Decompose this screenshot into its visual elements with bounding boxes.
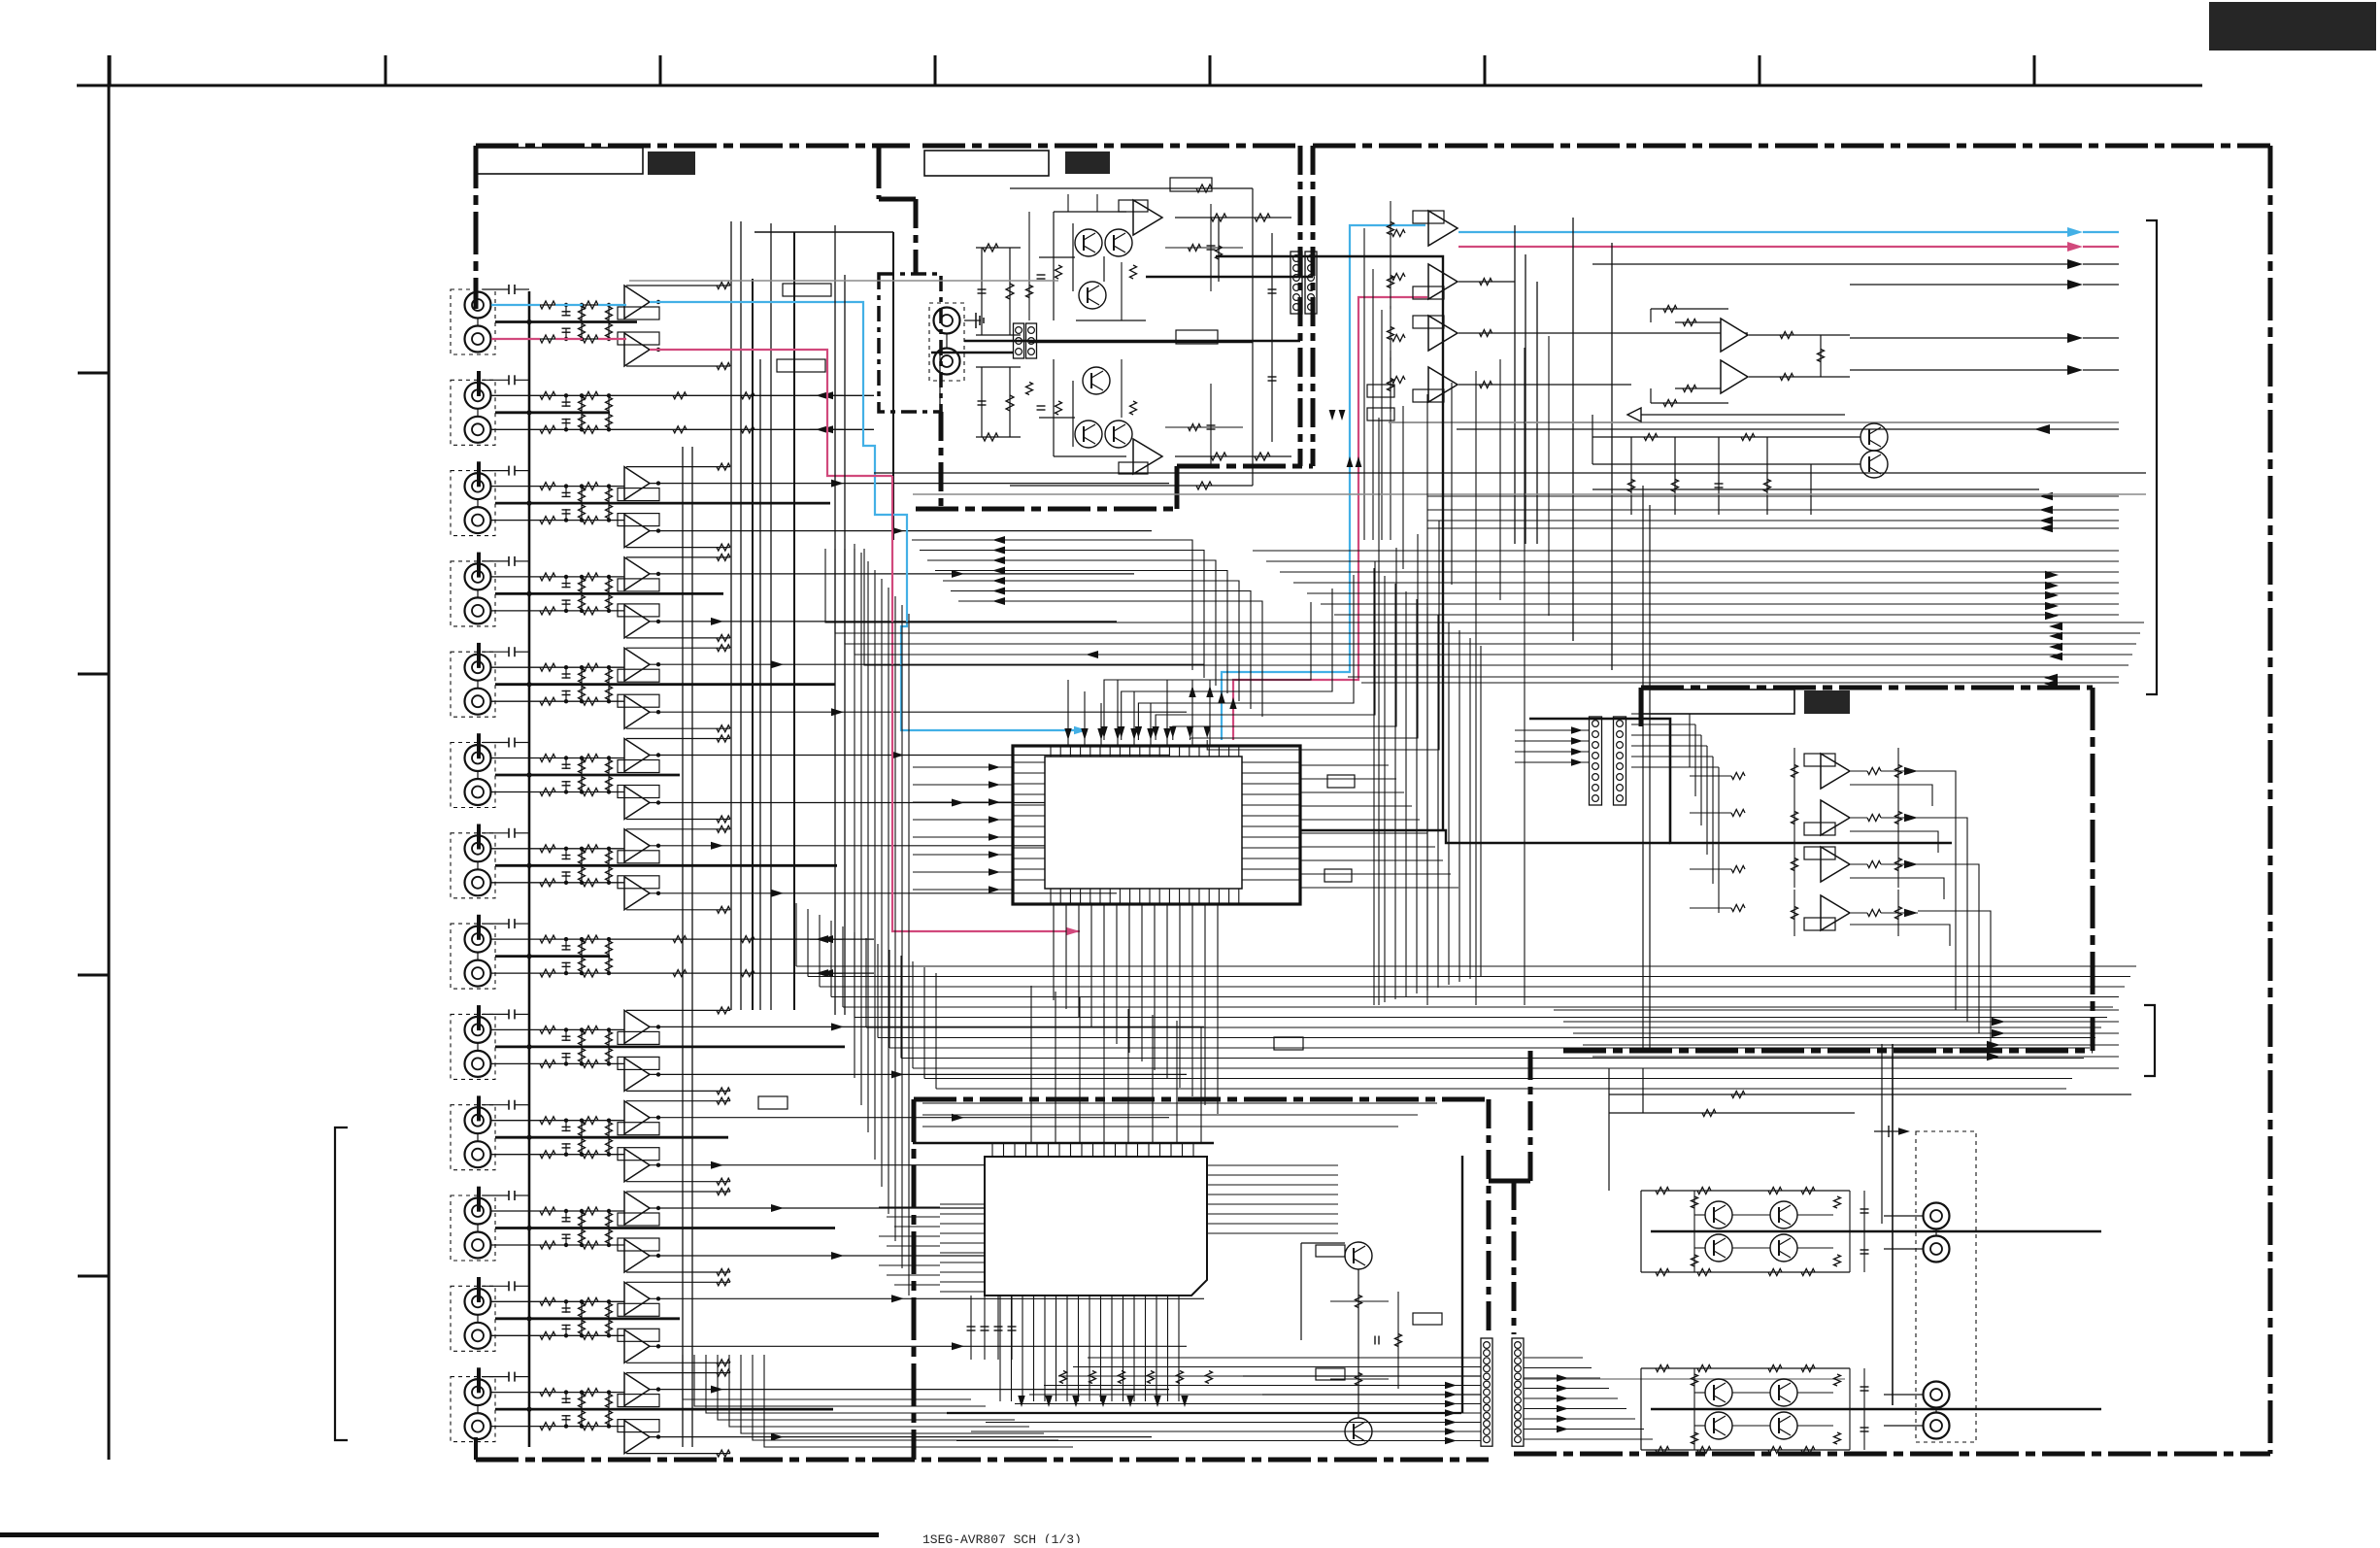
wire arrows out of bottom strips right — [1524, 1357, 1583, 1359]
resistor R17b — [583, 1026, 598, 1033]
op-amp U5B — [624, 695, 650, 728]
resistor R22c vertical — [581, 1228, 583, 1246]
op-amp U43 feedback — [1804, 918, 1835, 930]
resistor R7d vertical — [608, 577, 610, 594]
resistor R24d vertical — [608, 1319, 610, 1336]
board border bottom right — [1514, 1452, 2270, 1457]
RCA jack J3A — [465, 473, 491, 499]
resistor R18b — [583, 1060, 598, 1067]
board ref label box right-center block — [1804, 690, 1850, 714]
RCA jack J1B — [465, 326, 491, 353]
ground heavy link pair 12 — [495, 1317, 680, 1320]
wire input channel 22 — [491, 1244, 627, 1246]
page frame left tick marks — [78, 372, 109, 375]
wire speaker feeds — [1884, 1215, 1923, 1217]
wire link J13 — [477, 1405, 479, 1413]
board border right-center block top — [1641, 686, 2093, 690]
op-amp U12 feedback loop — [1413, 316, 1444, 328]
IC U60 body — [985, 1157, 1207, 1296]
ground heavy link pair 2 — [495, 411, 610, 414]
wire link J5 — [477, 681, 479, 689]
op-amp U11B feedback wire — [626, 1271, 730, 1273]
resistor R25b — [583, 1389, 598, 1397]
resistor vert U11 — [1390, 254, 1391, 309]
dual op-amp wiring — [1675, 321, 1721, 323]
heavy wire right-center — [1529, 719, 1952, 843]
resistor R24c vertical — [581, 1319, 583, 1336]
wire verticals between ICs — [1030, 986, 1032, 1143]
wire vertical mixes top-right — [1514, 225, 1516, 544]
resistor R8a — [540, 607, 555, 615]
connector dashed box J7 — [451, 833, 495, 898]
op-amp U1A feedback loop — [618, 307, 659, 320]
thick analog ground bus vertical — [528, 291, 531, 1447]
wire gray feedback left op-amp1 — [629, 280, 1058, 282]
op-amp U1B — [624, 333, 650, 366]
wire input channel 24 — [491, 1334, 627, 1336]
op-amp U10B feedback loop — [618, 1148, 659, 1161]
ground heavy link pair 1 — [495, 320, 637, 323]
wire band1 groupB continuous rows — [825, 549, 2144, 623]
wire op-amp output row y1244 — [650, 1207, 1134, 1209]
resistor R21c vertical — [581, 1211, 583, 1228]
op-amp U6A — [624, 739, 650, 772]
resistor R7c vertical — [581, 577, 583, 594]
connector dashed box J13 — [451, 1377, 495, 1442]
RCA jack J7A — [465, 835, 491, 861]
connector strip bottom left — [1481, 1338, 1492, 1446]
wire left arrows rows 511-544 — [1427, 495, 2119, 497]
wire band1 groupC rows into IC top — [1104, 602, 1311, 740]
power cluster mid heavy — [1651, 1408, 2101, 1410]
resistor R24a — [540, 1331, 555, 1339]
speaker jack dashed box — [1916, 1131, 1976, 1442]
wire rows above bottom-center block — [922, 1102, 1437, 1104]
resistor R13a — [540, 845, 555, 853]
RCA jack J3B — [465, 507, 491, 533]
op-amp U11A feedback wire — [626, 1191, 730, 1193]
power transistor QA — [1705, 1379, 1732, 1406]
cap C9a top marks — [483, 1013, 509, 1015]
resistor R2d vertical — [608, 322, 610, 340]
page frame top rule — [77, 84, 2202, 87]
wire long vertical pair center — [834, 225, 836, 1015]
resistor R6a — [540, 517, 555, 524]
op-amp U9B feedback wire — [626, 1090, 730, 1092]
resistor U43 in — [1731, 905, 1745, 912]
wire gray row 435 — [1389, 421, 2119, 423]
resistor R21d vertical — [608, 1211, 610, 1228]
op-amp U6B feedback loop — [618, 786, 659, 798]
capacitor C19 — [565, 1121, 567, 1132]
op-amp U11A feedback loop — [618, 1213, 659, 1226]
resistor R5b — [583, 483, 598, 490]
power transistor QD — [1770, 1412, 1797, 1439]
wire input channel 3 — [491, 394, 627, 396]
resistor R14c vertical — [581, 865, 583, 883]
wire blue left channel from RCA — [491, 304, 540, 306]
op-amp U6A feedback loop — [618, 760, 659, 773]
wire pink vertical descent — [892, 476, 1080, 931]
RCA jack J7B — [465, 869, 491, 895]
RCA jack J12B — [465, 1323, 491, 1349]
small label box bc2 — [1316, 1368, 1345, 1380]
resistor R4d vertical — [608, 413, 610, 430]
op-amp U12 top-right — [1428, 316, 1458, 351]
connector dashed box J1 — [451, 289, 495, 354]
resistor R3c vertical — [581, 395, 583, 413]
wire output row 381 — [1850, 369, 2073, 371]
RCA jack J10B — [465, 1141, 491, 1167]
phones jack ring — [934, 349, 960, 375]
board border right-center block bottom — [1563, 1049, 2093, 1054]
resistor R14d vertical — [608, 865, 610, 883]
resistor R9d vertical — [608, 667, 610, 685]
page number box top-right — [2209, 2, 2376, 50]
resistor R21b — [583, 1207, 598, 1215]
wire link J10 — [477, 1133, 479, 1141]
resistor U41 in — [1731, 810, 1745, 817]
connector 3pin pair headphone — [1014, 323, 1024, 358]
wire pink right channel from RCA — [650, 350, 892, 476]
resistor R6d vertical — [608, 503, 610, 521]
power cluster wires — [1640, 1191, 1642, 1272]
wire staircase bundle bottom-left — [683, 1355, 971, 1399]
small label box row2 — [777, 359, 825, 372]
power cluster mid heavy — [1651, 1230, 2101, 1232]
op-amp U1B feedback loop — [618, 332, 659, 345]
board ref label box headphone block — [1065, 151, 1110, 174]
heavy wire connector down — [1216, 256, 1443, 830]
RCA jack J8B — [465, 960, 491, 987]
wire link J2 — [477, 409, 479, 417]
wire link J1 — [477, 319, 479, 326]
connector dashed box J6 — [451, 743, 495, 808]
connector dashed box J2 — [451, 380, 495, 445]
wire bus vertical pair B — [730, 221, 732, 1010]
power cluster caps — [1863, 1191, 1865, 1272]
wire IC U30 right fan — [1300, 764, 1389, 766]
resistor U43 out — [1867, 910, 1881, 917]
power cluster wires — [1640, 1368, 1642, 1450]
wire input channel 9 — [491, 666, 627, 668]
resistor R8c vertical — [581, 593, 583, 611]
resistor R5c vertical — [581, 487, 583, 503]
resistor R25d vertical — [608, 1393, 610, 1410]
arrow marks center verticals — [1329, 410, 1336, 421]
capacitor C18 — [565, 1053, 567, 1064]
cap C3a top marks — [483, 470, 509, 472]
op-amp U7A — [624, 829, 650, 862]
resistor R22d vertical — [608, 1228, 610, 1246]
resistor R23a — [540, 1297, 555, 1305]
transistor Q10 top-right — [1860, 423, 1888, 451]
RCA jack J5B — [465, 689, 491, 715]
cap C5a top marks — [483, 651, 509, 653]
capacitor C22 — [565, 1234, 567, 1246]
wire dense output group right — [1253, 550, 2119, 552]
IC U60 top pins — [991, 1143, 993, 1157]
board name box input block — [477, 148, 643, 174]
capacitor C15 — [565, 939, 567, 951]
RCA jack J9A — [465, 1017, 491, 1043]
op-amp U11 top-right — [1428, 264, 1458, 299]
wire gray row y509 — [913, 493, 2146, 495]
wire long vertical right block — [1892, 1044, 1894, 1405]
IC U60 left pins — [940, 1203, 985, 1205]
wire band1 right risers — [1378, 418, 1380, 1005]
cap C12a top marks — [483, 1285, 509, 1287]
op-amp U12B feedback loop — [618, 1329, 659, 1341]
resistor R3b — [583, 391, 598, 399]
RCA jack J11A — [465, 1198, 491, 1225]
headphone top rail wire — [1010, 187, 1253, 189]
op-amp U4A feedback loop — [618, 579, 659, 591]
op-amp U4A feedback wire — [626, 556, 730, 558]
wire bus vertical bundle center-left — [854, 544, 855, 1078]
wire op-amp output row y1106 — [650, 1073, 1187, 1075]
wire right-center feed lines — [1631, 713, 1690, 715]
resistor R17a — [540, 1026, 555, 1033]
connector dashed box J12 — [451, 1286, 495, 1351]
op-amp U11A — [624, 1192, 650, 1225]
capacitor C20 — [565, 1143, 567, 1155]
small label box bc1 — [1316, 1245, 1345, 1257]
power cluster caps — [1863, 1368, 1865, 1450]
resistor R11d vertical — [608, 758, 610, 776]
resistor R22b — [583, 1241, 598, 1249]
diode mark top of speaker box — [1874, 1130, 1903, 1132]
capacitor C17 — [565, 1029, 567, 1041]
resistor U40 out — [1867, 768, 1881, 775]
resistor R12b — [583, 789, 598, 796]
wire bus into IC U60 left — [879, 1206, 940, 1208]
resistor R15c vertical — [581, 939, 583, 957]
op-amp U42 feedback — [1804, 847, 1835, 859]
headphone transistor Q2 — [1105, 229, 1132, 256]
op-amp U7A feedback loop — [618, 851, 659, 863]
phones jack dashed box — [929, 303, 964, 381]
op-amp U10A feedback loop — [618, 1123, 659, 1135]
resistor R11a — [540, 755, 555, 762]
wire pink DAC vertical — [1233, 297, 1427, 740]
op-amp U1A feedback wire — [626, 285, 730, 286]
wire bus band2 horizontal group — [796, 965, 2136, 967]
wire blue op-amp output staircase — [650, 302, 1088, 730]
wire direct row pair 8 — [626, 938, 874, 940]
ground heavy link pair 6 — [495, 774, 680, 777]
zigzag resistors under IC U60 — [1060, 1371, 1067, 1384]
cap C2a top marks — [483, 379, 509, 381]
resistor R5a — [540, 483, 555, 490]
wire input channel 18 — [491, 1062, 627, 1064]
resistor R7a — [540, 573, 555, 581]
resistor R18d vertical — [608, 1047, 610, 1064]
resistor R9b — [583, 663, 598, 671]
resistor R4b — [583, 425, 598, 433]
svg-text:1SEG-AVR807 SCH (1/3): 1SEG-AVR807 SCH (1/3) — [922, 1532, 1082, 1543]
dual op-amp U20A — [1721, 319, 1748, 352]
board name box headphone block — [924, 151, 1049, 176]
connector 8pin pair mid — [1590, 717, 1602, 805]
wire input channel 13 — [491, 848, 627, 850]
wire gray rows bottom strips — [1243, 1375, 1481, 1377]
wire output row 348 — [1850, 337, 2073, 339]
power transistor QC — [1705, 1234, 1732, 1262]
resistor R25a — [540, 1389, 555, 1397]
cap C6a top marks — [483, 742, 509, 744]
power transistor QB — [1770, 1201, 1797, 1228]
op-amp U40 feedback — [1804, 754, 1835, 766]
wire nested vertical bundle below op-amps — [1363, 228, 1365, 540]
wire link J9 — [477, 1043, 479, 1051]
resistor U40 in — [1731, 773, 1745, 780]
op-amp U3A — [624, 467, 650, 500]
vertical resistors U40 — [1793, 748, 1795, 794]
wire op-amp output row y777 — [650, 755, 1169, 757]
small label box ic2 b — [758, 1096, 788, 1109]
capacitors under IC U60 — [970, 1296, 972, 1360]
resistor R2c vertical — [581, 322, 583, 340]
wire input channel 1 — [491, 304, 627, 306]
RCA jack J8A — [465, 926, 491, 953]
wire IC U60 bottom arrows — [1018, 1396, 1024, 1407]
resistor R16d vertical — [608, 957, 610, 974]
resistor U42 out — [1867, 861, 1881, 868]
op-amp U6B — [624, 787, 650, 820]
op-amp U13A — [624, 1373, 650, 1406]
op-amp U7B — [624, 877, 650, 910]
wire arrows into mid connector — [1515, 729, 1590, 731]
resistor R26a — [540, 1423, 555, 1430]
board name box right-center block — [1641, 690, 1794, 714]
resistor R4c vertical — [581, 413, 583, 430]
board border headphone right double — [1298, 146, 1303, 466]
resistor R6b — [583, 517, 598, 524]
headphone transistor Q5 — [1075, 421, 1102, 448]
heavy vertical bottom-center — [1461, 1156, 1463, 1413]
wire output row 293 — [1850, 284, 2073, 286]
ground heavy link pair 13 — [495, 1408, 833, 1411]
wire link J8 — [477, 953, 479, 960]
ground heavy link pair 9 — [495, 1046, 845, 1049]
resistor R6c vertical — [581, 503, 583, 521]
op-amp U4B feedback loop — [618, 604, 659, 617]
capacitor C11 — [565, 758, 567, 770]
bottom-center transistor wiring — [1301, 1242, 1345, 1244]
resistor R23d vertical — [608, 1301, 610, 1319]
wire bus vertical D heavy — [793, 232, 795, 1010]
wire op-amp output row y684 — [650, 663, 1204, 665]
op-amp U13B — [624, 1421, 650, 1454]
connector dashed box J10 — [451, 1105, 495, 1170]
op-amp U12A feedback loop — [618, 1303, 659, 1316]
op-amp U43 right-center — [1821, 895, 1850, 930]
speaker RCA top B — [1924, 1236, 1950, 1262]
board border input block top — [476, 144, 910, 149]
op-amp U6B feedback wire — [626, 819, 730, 821]
bracket left lower group — [335, 1127, 348, 1440]
IC U30 bottom pins — [1050, 889, 1052, 904]
wire output row 272 — [1592, 263, 2073, 265]
top-right network wires — [1592, 436, 1860, 438]
resistor R5d vertical — [608, 487, 610, 503]
op-amp U3B feedback wire — [626, 547, 730, 549]
IC U30 body — [1045, 757, 1242, 889]
RCA jack J2A — [465, 383, 491, 409]
resistor R8b — [583, 607, 598, 615]
wire link J12 — [477, 1315, 479, 1323]
board border right-center block right — [2091, 688, 2095, 1051]
op-amp U1B feedback wire — [626, 365, 730, 367]
resistor R24b — [583, 1331, 598, 1339]
headphone transistor Q6 — [1105, 421, 1132, 448]
headphone block fill wires — [1028, 212, 1030, 320]
wire link J6 — [477, 771, 479, 779]
small label box headphone 2 — [1176, 330, 1218, 344]
wire row y487 — [874, 472, 2146, 474]
op-amp U3B — [624, 515, 650, 548]
small label box tr1 — [1367, 385, 1394, 397]
op-amp U42 right-center — [1821, 847, 1850, 882]
resistor R9c vertical — [581, 667, 583, 685]
IC U30 right pins — [1242, 761, 1300, 763]
headphone wire bus to connector — [931, 352, 1013, 354]
wire IC U30 bottom fan — [1053, 904, 1055, 1000]
wire link J3 — [477, 499, 479, 507]
headphone op-amp top feedback — [1119, 200, 1148, 212]
RCA jack J4B — [465, 597, 491, 623]
resistor R20d vertical — [608, 1137, 610, 1155]
small label box tr2 — [1367, 408, 1394, 421]
resistor R26b — [583, 1423, 598, 1430]
transistor Q51 — [1345, 1418, 1372, 1445]
resistor R19b — [583, 1117, 598, 1125]
headphone transistor Q1 — [1075, 229, 1102, 256]
resistor R8d vertical — [608, 593, 610, 611]
resistor R14a — [540, 879, 555, 887]
top-right lower rail — [1592, 488, 2039, 490]
resistor R11b — [583, 755, 598, 762]
wire input channel 4 — [491, 428, 627, 430]
resistor R10d vertical — [608, 685, 610, 702]
headphone transistor Q3 — [1079, 282, 1106, 309]
op-amp U9B — [624, 1058, 650, 1091]
wire blue DAC vertical — [1222, 225, 1425, 740]
resistor R10c vertical — [581, 685, 583, 702]
connector dashed box J5 — [451, 652, 495, 717]
wire input channel 10 — [491, 700, 627, 702]
wire op-amp output row y639 — [650, 621, 1117, 623]
board border main right — [2268, 146, 2273, 1454]
headphone wires upper cluster — [1053, 212, 1055, 320]
resistor vert U13 — [1390, 357, 1391, 412]
op-amp U13 top-right — [1428, 367, 1458, 402]
wire bus vertical pair A — [682, 447, 684, 1447]
cap C13a top marks — [483, 1376, 509, 1378]
wire op-amp output row y1337 — [650, 1297, 1204, 1299]
connector dashed box J4 — [451, 561, 495, 626]
wire input channel 16 — [491, 972, 627, 974]
small label box ic1 right b — [1324, 869, 1352, 882]
heavy wire IC1 right exit — [1300, 830, 1670, 843]
connector strip bottom right — [1512, 1338, 1524, 1446]
cap C4a top marks — [483, 560, 509, 562]
op-amp U5A feedback wire — [626, 647, 730, 649]
headphone right network — [1175, 217, 1291, 219]
wire op-amp output row y1057 — [650, 1026, 1204, 1027]
op-amp U10A — [624, 1101, 650, 1134]
